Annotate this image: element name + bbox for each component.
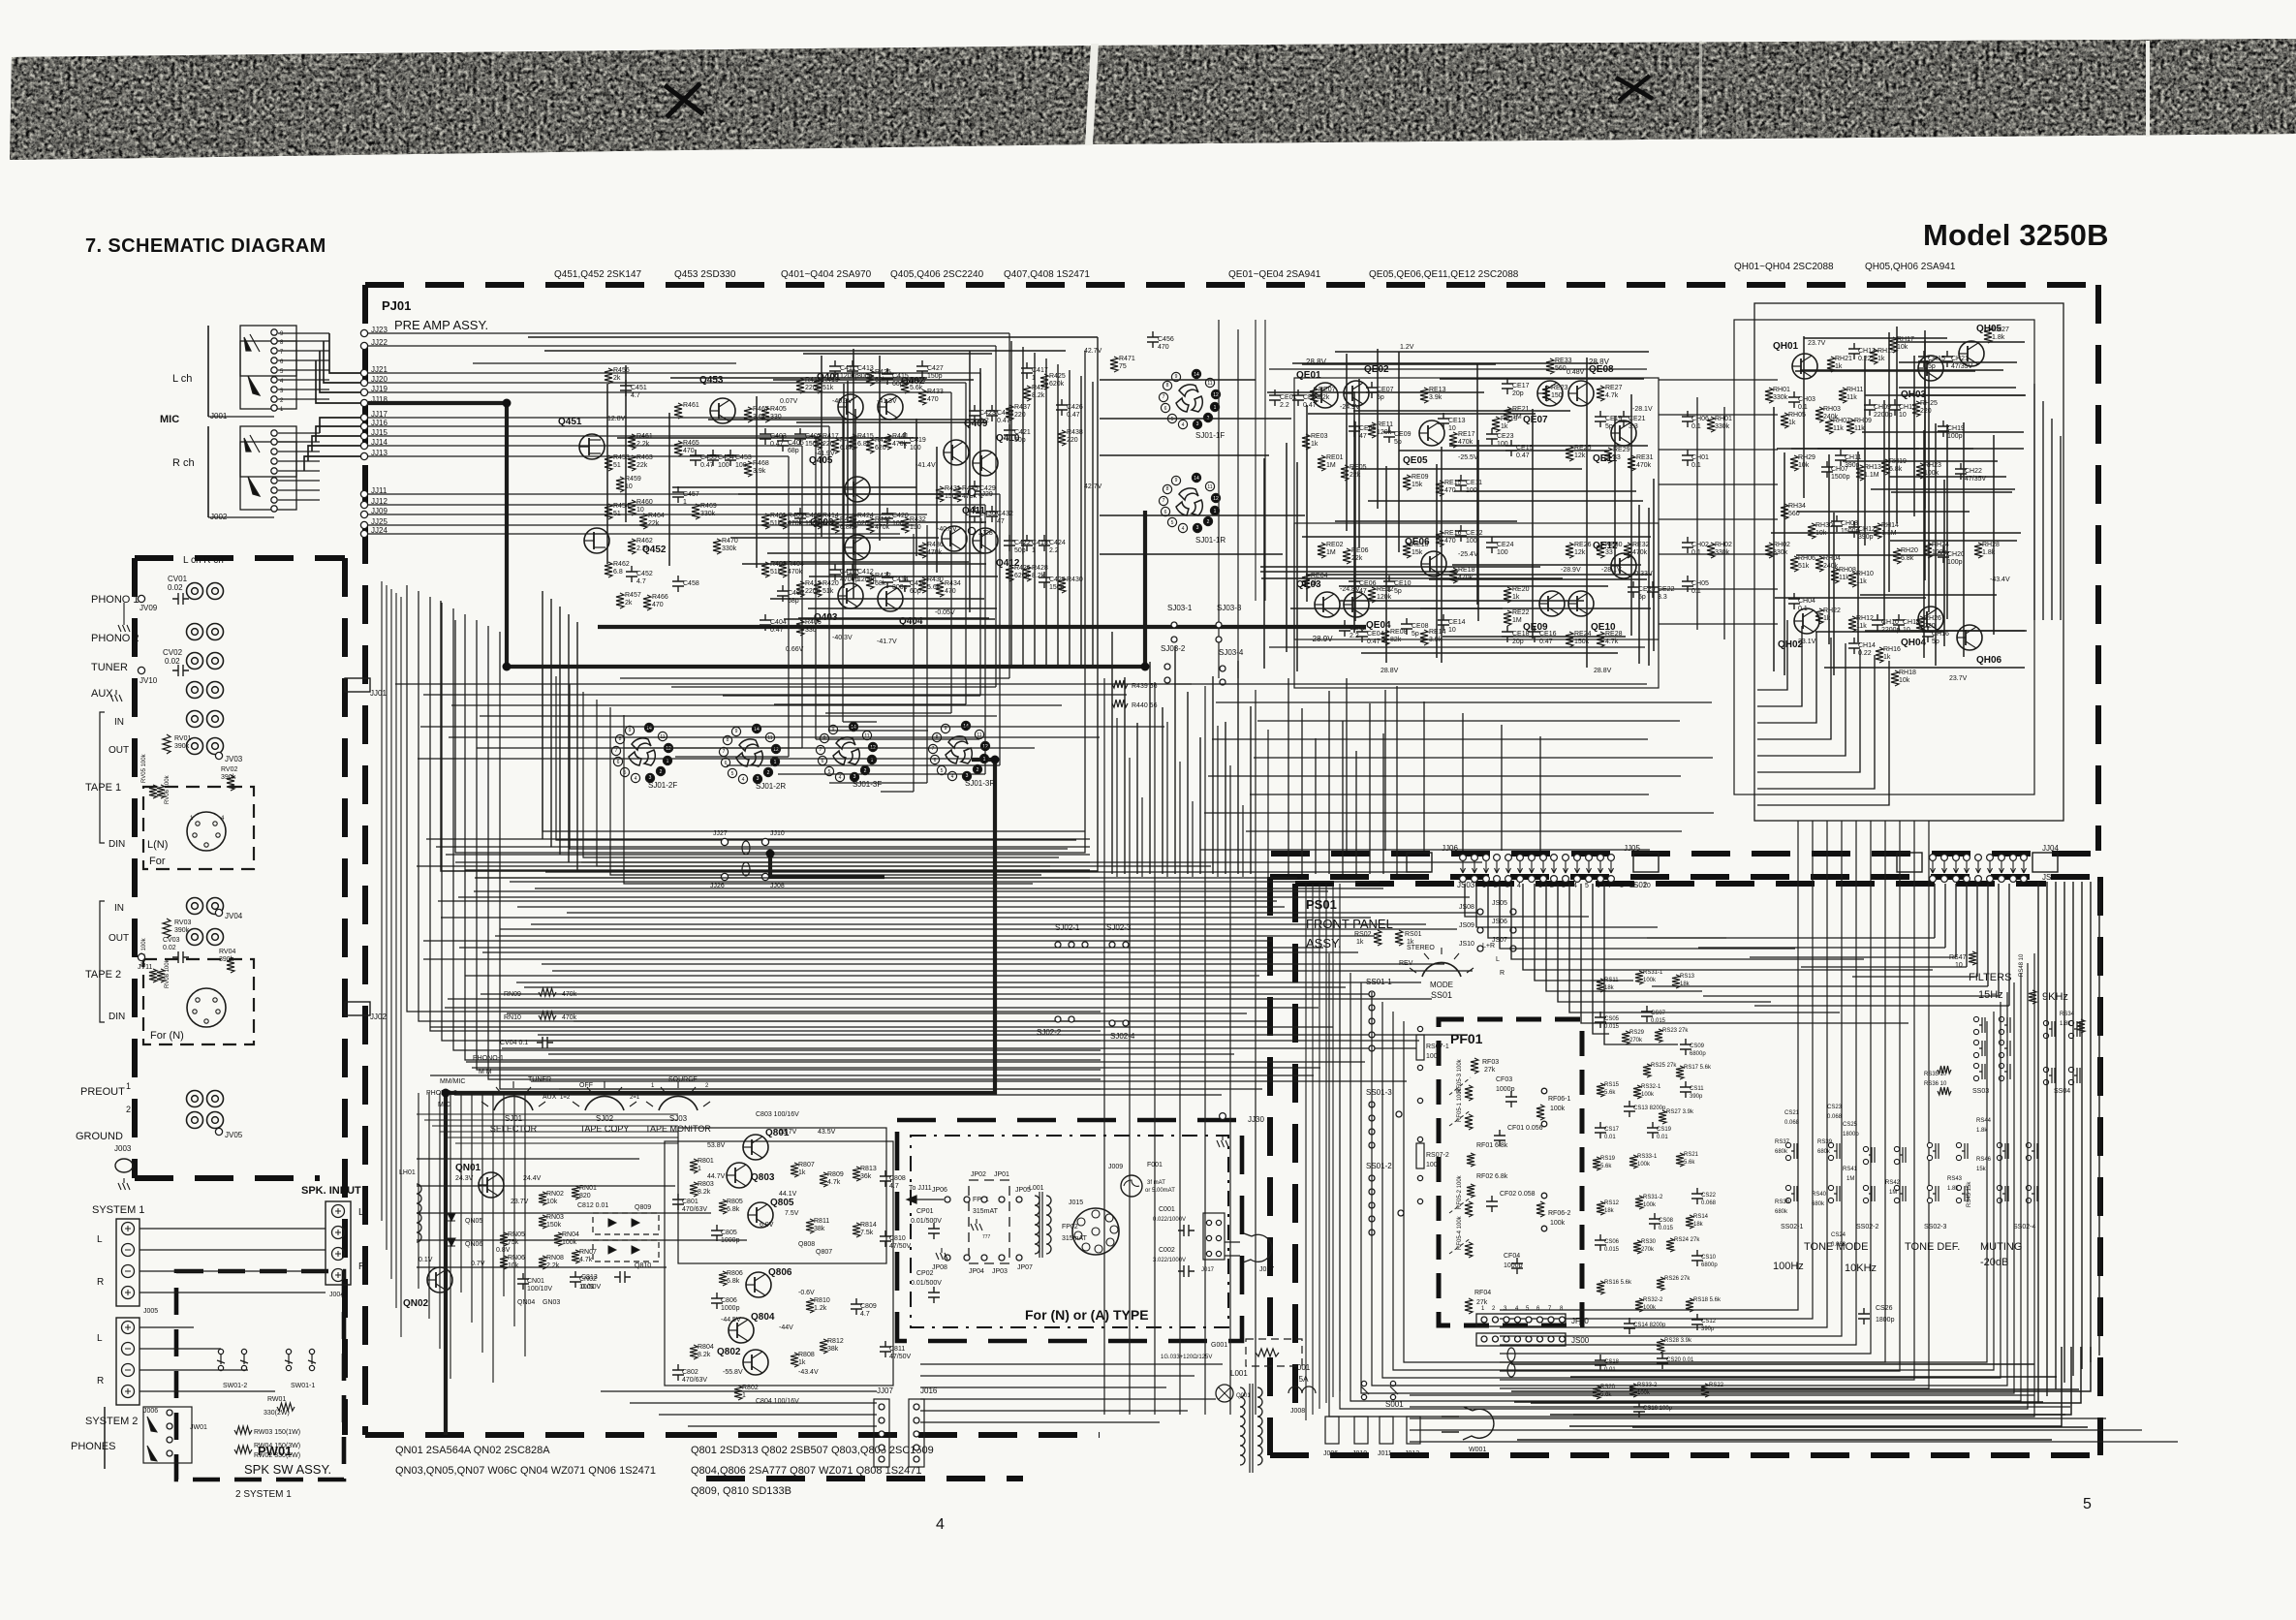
svg-text:C810: C810 [889,1235,906,1242]
svg-text:C453: C453 [735,454,752,461]
svg-text:JJ01: JJ01 [370,689,387,698]
svg-text:CE11: CE11 [1466,480,1482,486]
svg-text:JP06: JP06 [932,1187,947,1194]
svg-text:CH14: CH14 [1858,642,1876,649]
svg-text:REV: REV [1399,960,1413,967]
svg-text:RE12: RE12 [1377,586,1394,593]
svg-text:J011: J011 [1378,1450,1392,1457]
svg-text:Q801 2SD313 Q802 2SB50: Q801 2SD313 Q802 2SB507 Q803,Q805 2SC150… [691,1445,934,1456]
svg-text:SJ02-1: SJ02-1 [1055,923,1080,932]
svg-text:SJ02-2: SJ02-2 [1037,1028,1062,1037]
svg-text:JV04: JV04 [225,912,243,920]
svg-text:MIC: MIC [160,414,179,425]
heavy wire to front panel [770,854,884,877]
transistor QE01 [1313,383,1338,408]
svg-text:CE23: CE23 [1497,433,1514,440]
svg-text:1.2V: 1.2V [1400,344,1414,351]
svg-text:15k: 15k [1412,549,1423,556]
svg-text:9: 9 [629,728,632,733]
connector strip JS03/JS02 [1460,855,1615,883]
svg-text:1M: 1M [1326,462,1336,469]
svg-text:JJ10: JJ10 [770,830,785,837]
svg-text:10k: 10k [508,1262,519,1269]
wire bundle rotary row horizontals [395,683,1192,685]
svg-text:SJ03: SJ03 [669,1114,688,1123]
svg-text:47: 47 [997,518,1005,525]
svg-text:53.8V: 53.8V [707,1142,726,1149]
svg-text:1: 1 [698,1166,701,1172]
svg-text:0.068: 0.068 [1831,1242,1846,1248]
svg-text:680k: 680k [1812,1201,1825,1207]
svg-text:RE20: RE20 [1512,586,1530,593]
transistor Q404 [878,586,903,611]
svg-text:-40.8V: -40.8V [937,526,957,533]
svg-text:5: 5 [941,768,944,774]
svg-text:RE19: RE19 [1501,416,1518,422]
svg-text:330k: 330k [722,545,737,552]
wire bundle JS03 connector fan down [1465,884,1589,917]
svg-text:QH01~QH04 2SC2088: QH01~QH04 2SC2088 [1734,262,1834,272]
svg-text:RS32-1: RS32-1 [1641,1084,1661,1090]
svg-text:11k: 11k [1854,425,1865,432]
svg-text:RV03: RV03 [174,919,191,926]
transistor Q405 [845,477,870,502]
svg-text:6: 6 [1597,883,1600,889]
svg-text:SJ01-3R: SJ01-3R [965,779,995,788]
rotary switch SJ01-1R [1159,473,1220,532]
svg-text:MODE: MODE [1430,981,1453,989]
capacitor CV02 [172,665,189,676]
svg-text:RE32: RE32 [1632,542,1650,548]
svg-text:3.022/1000V: 3.022/1000V [1153,1258,1186,1263]
svg-text:RH23: RH23 [1924,462,1941,469]
svg-text:150: 150 [910,524,921,531]
svg-text:JJ27: JJ27 [713,830,728,837]
svg-text:DIN: DIN [109,839,125,850]
mic jack pins R [271,430,277,436]
svg-text:4.7: 4.7 [889,1183,899,1190]
svg-text:C802: C802 [682,1369,698,1376]
For (N) tape2 din border [143,959,254,1044]
svg-text:J017: J017 [1201,1267,1215,1273]
svg-text:C806: C806 [721,1297,737,1304]
svg-text:RH04: RH04 [1823,555,1841,562]
RCA jacks PHONO1 [187,583,203,600]
svg-text:5p: 5p [1928,363,1936,370]
speaker switch SW01-1 [288,1355,290,1364]
svg-text:PHONO 1: PHONO 1 [91,594,140,606]
transistor QH04 [1918,607,1943,632]
svg-text:C452: C452 [636,571,653,577]
svg-text:RH22: RH22 [1823,607,1841,614]
transistor QE03 [1315,592,1340,617]
svg-text:1k: 1k [1512,594,1520,601]
svg-text:RS15: RS15 [1604,1082,1620,1088]
svg-text:RS21: RS21 [1684,1152,1699,1158]
svg-text:390p: 390p [1701,1326,1715,1332]
coil LH01 [417,1184,421,1242]
wire bundle JJ04 connector fan down [1934,884,1936,938]
svg-text:1M: 1M [1326,549,1336,556]
svg-text:28.8V: 28.8V [1594,668,1612,674]
AC plug W001 lower [1442,1407,1494,1440]
svg-text:-25.4V: -25.4V [1458,551,1478,558]
svg-text:100k: 100k [1550,1220,1566,1227]
svg-text:11: 11 [864,733,869,739]
svg-text:10: 10 [636,507,644,514]
svg-text:JS01: JS01 [2042,873,2061,882]
jack JV05 [215,1128,222,1135]
terminal strip SPK INPUT [326,1201,351,1285]
svg-text:1M: 1M [1889,1190,1897,1196]
svg-text:7.5V: 7.5V [785,1210,799,1217]
transistor Q401 [838,394,863,420]
svg-text:Q001: Q001 [1236,1393,1251,1399]
svg-text:680k: 680k [1775,1209,1788,1215]
wires QE to QH crossing [1659,379,1778,381]
svg-text:RF06-2: RF06-2 [1548,1210,1570,1217]
svg-text:6: 6 [1164,406,1167,412]
svg-text:0.48V: 0.48V [1567,369,1585,376]
svg-text:RS40: RS40 [1812,1192,1827,1198]
tone control resistor matrix lower [1597,1201,1604,1215]
DIN connector TAPE2 [187,988,226,1027]
svg-text:2 SYSTEM 1: 2 SYSTEM 1 [235,1489,292,1500]
svg-text:R: R [97,1277,104,1288]
svg-text:R801: R801 [698,1158,714,1165]
svg-text:10k: 10k [1899,677,1910,684]
svg-text:6: 6 [617,760,620,765]
svg-text:23.7V: 23.7V [1808,340,1826,347]
svg-text:CV02: CV02 [163,648,183,657]
svg-text:470/63V: 470/63V [682,1206,707,1213]
svg-text:Q806: Q806 [768,1267,792,1278]
svg-text:3: 3 [1562,883,1566,889]
svg-text:1: 1 [1538,883,1542,889]
svg-text:2.2: 2.2 [1280,402,1289,409]
svg-text:5.6k: 5.6k [1600,1164,1612,1169]
svg-text:2: 2 [864,768,867,774]
input section border bottom [135,1175,320,1181]
svg-text:RH02: RH02 [1773,542,1790,548]
svg-text:SYSTEM 2: SYSTEM 2 [85,1416,138,1427]
svg-text:6.8k: 6.8k [1901,555,1914,562]
svg-text:R420: R420 [822,580,839,587]
scan band noise texture [10,39,2296,160]
svg-text:RS32-2: RS32-2 [1643,1297,1663,1303]
svg-text:0.01: 0.01 [1604,1135,1616,1140]
svg-text:5: 5 [828,769,831,775]
svg-text:0.1: 0.1 [1691,423,1701,430]
svg-text:R471: R471 [1119,356,1135,362]
svg-text:RH21: RH21 [1835,356,1852,362]
svg-text:R811: R811 [814,1218,829,1225]
svg-text:100k: 100k [1643,1305,1657,1311]
svg-text:10: 10 [1448,425,1456,432]
svg-text:15k: 15k [1976,1167,1987,1172]
svg-text:CH07: CH07 [1831,466,1848,473]
svg-text:CF02 0.058: CF02 0.058 [1500,1191,1536,1198]
svg-text:R440 56: R440 56 [1132,702,1158,709]
svg-text:330k: 330k [1773,549,1788,556]
svg-text:QH06: QH06 [1976,655,2002,666]
svg-text:47: 47 [1359,433,1367,440]
svg-text:C002: C002 [1159,1247,1175,1254]
svg-text:4: 4 [951,774,954,780]
svg-text:R803: R803 [698,1181,714,1188]
wires QH inner-right verticals [2033,384,2035,620]
capacitor CE01 area vertical wires [1255,320,1257,601]
svg-text:RS27 3.9k: RS27 3.9k [1666,1109,1694,1115]
svg-text:QE02: QE02 [1364,364,1389,375]
PJ01 assembly border left [362,285,368,1435]
wires mic to JJ jacks [278,332,329,334]
svg-text:2.2k: 2.2k [636,545,650,552]
svg-text:QE06: QE06 [1405,537,1430,547]
svg-text:7: 7 [1163,498,1165,504]
svg-text:6: 6 [725,761,728,766]
svg-text:C812 0.01: C812 0.01 [577,1202,608,1209]
svg-text:STEREO: STEREO [1407,945,1435,951]
svg-text:1k: 1k [1877,356,1885,362]
filter switches SS03 [1973,1016,1985,1034]
resistor RV02 [227,775,234,791]
transistor Q403 [838,583,863,608]
svg-text:0.7V: 0.7V [471,1261,485,1267]
svg-text:100k: 100k [1426,1053,1442,1060]
svg-text:0.47: 0.47 [700,462,714,469]
transistor QH05 [1959,341,1984,366]
svg-text:CE13: CE13 [1448,418,1466,424]
jack JJ30 [1220,1113,1226,1120]
svg-text:8.2k: 8.2k [698,1352,711,1358]
svg-text:330k: 330k [700,511,716,517]
svg-text:2=1: 2=1 [630,1095,640,1101]
svg-text:C804 100/16V: C804 100/16V [756,1398,799,1405]
svg-text:CV03: CV03 [163,937,180,944]
svg-text:1: 1 [667,759,669,764]
capacitor CV03 [172,951,189,963]
muting switch block [1997,1142,2008,1160]
connector box JJ04 right [2032,853,2058,872]
svg-text:220: 220 [1924,623,1936,630]
svg-text:24.3V: 24.3V [455,1175,474,1182]
svg-text:11: 11 [767,735,772,741]
svg-text:RS28 3.9k: RS28 3.9k [1664,1338,1692,1344]
svg-text:4: 4 [936,1516,945,1533]
svg-text:JS03: JS03 [1457,881,1475,889]
svg-text:RN02: RN02 [546,1191,564,1198]
svg-text:470k: 470k [1458,439,1474,446]
svg-text:RN10: RN10 [504,1014,521,1021]
svg-text:470k: 470k [562,1014,577,1021]
svg-text:JS10: JS10 [1459,941,1474,948]
svg-text:51: 51 [613,511,621,517]
svg-text:330k: 330k [1715,423,1730,430]
power section border bottom step [706,1476,1023,1481]
svg-text:470: 470 [945,588,956,595]
lamp J001 circle [1216,1385,1233,1402]
svg-text:PHONES: PHONES [71,1441,115,1452]
wires power amp lower connections [601,1390,877,1392]
transistor Q453 [710,398,735,423]
svg-text:3f mAT: 3f mAT [1147,1180,1165,1186]
transistor QE04 [1344,592,1369,617]
svg-text:RS29: RS29 [1629,1030,1645,1036]
svg-text:SS01-2: SS01-2 [1366,1162,1392,1170]
svg-text:LH01: LH01 [399,1169,416,1176]
transistor Q803 [727,1163,752,1188]
svg-text:JS09: JS09 [1459,922,1474,929]
svg-text:6800p: 6800p [1701,1262,1718,1268]
resistor RW01 [277,1403,295,1411]
svg-text:4.7k: 4.7k [1605,392,1619,399]
svg-text:6.8k: 6.8k [727,1206,740,1213]
svg-text:3.9k: 3.9k [753,468,766,475]
svg-text:11k: 11k [1839,575,1849,581]
PJ01 assembly border bottom [365,1432,678,1438]
power amp assembly border bottom [1271,851,2098,857]
svg-text:50p: 50p [1014,437,1026,444]
speaker switch SW01-2 [220,1355,222,1364]
svg-text:CH01: CH01 [1691,454,1709,461]
svg-text:390k: 390k [219,956,234,963]
svg-text:-0.6V: -0.6V [798,1290,815,1296]
PS01 outer border right [2097,877,2103,1455]
svg-text:JJ04: JJ04 [2042,844,2059,853]
svg-text:RS45 15k: RS45 15k [1967,1181,1972,1207]
svg-text:SJ02: SJ02 [596,1114,614,1123]
svg-text:15Hz: 15Hz [1978,989,2003,1001]
heavy wire rotary SJ01-3R to bus [446,760,995,1435]
svg-text:J003: J003 [114,1144,132,1153]
transistor QE11 [1611,421,1636,446]
svg-text:R: R [358,1262,365,1272]
scan band white line right [2146,41,2150,137]
svg-text:470k: 470k [1632,549,1648,556]
RCA jacks PREOUT 1 [187,1091,203,1107]
svg-text:TUNER: TUNER [528,1076,551,1083]
svg-text:CS26: CS26 [1876,1305,1893,1312]
svg-text:RN08: RN08 [546,1255,564,1262]
svg-text:RV02: RV02 [221,766,237,773]
svg-text:7: 7 [1608,883,1612,889]
RCA jacks AUX [187,682,203,699]
PS01 outer border left [1267,877,1273,1455]
svg-text:C805: C805 [721,1230,737,1236]
svg-text:CS25: CS25 [1843,1122,1858,1128]
jumper box JJ02 [345,1002,370,1015]
svg-text:1: 1 [683,499,687,506]
svg-text:RV04: RV04 [219,949,235,955]
For L(N) tape1 din border [143,787,254,869]
transformer L001 lower [1240,1387,1245,1465]
resistors RS07-1 RS07-2 [1416,1035,1424,1060]
svg-text:Q809: Q809 [635,1204,651,1211]
svg-text:RH20: RH20 [1901,547,1918,554]
svg-text:PRE AMP ASSY.: PRE AMP ASSY. [394,318,488,332]
svg-text:R433: R433 [927,389,944,395]
svg-text:AUX: AUX [543,1094,557,1101]
svg-text:PHONO-1: PHONO-1 [473,1055,504,1062]
svg-text:CE12: CE12 [1466,530,1483,537]
power amp resistor/capacitor cluster [690,1159,698,1173]
ground [118,620,130,632]
svg-text:J009: J009 [1108,1164,1123,1170]
svg-text:RS24 27k: RS24 27k [1674,1237,1700,1243]
power amp assembly border right [2095,285,2101,851]
svg-text:CS08: CS08 [1659,1218,1674,1224]
svg-text:Model 3250B: Model 3250B [1923,218,2109,252]
QH section frame [1754,303,2063,821]
PS01 nested wire rectangles [1329,953,2034,1417]
svg-text:-44.5V: -44.5V [721,1317,741,1324]
QE left column components [1682,411,1693,427]
svg-text:JP01: JP01 [994,1171,1009,1178]
resistor RN09 RN10 [539,988,556,996]
svg-text:R809: R809 [827,1171,844,1178]
rotary switch SJ01-1F [1159,369,1220,428]
svg-text:0.47: 0.47 [770,627,784,634]
svg-text:PHONO 2: PHONO 2 [91,633,140,644]
svg-text:RH01: RH01 [1773,387,1790,393]
wire staircase QH lower [1757,620,1787,690]
junction dots on heavy wires [503,399,512,408]
svg-text:JP02: JP02 [971,1171,986,1178]
svg-text:QH01: QH01 [1773,341,1799,352]
svg-text:620k: 620k [1049,381,1065,388]
svg-text:CH04: CH04 [1798,598,1815,605]
transistor QE02 [1344,381,1369,406]
svg-text:CH19: CH19 [1947,425,1965,432]
svg-text:560: 560 [1555,365,1567,372]
transistor Q804 [729,1318,754,1343]
svg-text:CS19: CS19 [1657,1127,1672,1133]
svg-text:220: 220 [1067,437,1078,444]
svg-text:12: 12 [1213,392,1219,398]
svg-text:SS01: SS01 [1431,990,1452,1000]
svg-text:RV07 100k: RV07 100k [141,937,147,967]
svg-text:51k: 51k [822,385,834,391]
svg-text:14: 14 [851,725,856,731]
svg-text:CS05: CS05 [1604,1016,1620,1022]
svg-text:QN04: QN04 [517,1299,535,1306]
ground [110,690,122,701]
svg-text:0.02: 0.02 [165,657,180,666]
svg-text:14: 14 [1194,372,1199,378]
svg-text:RS37: RS37 [1775,1139,1790,1145]
svg-text:6: 6 [1164,510,1167,515]
svg-text:JV11: JV11 [138,964,153,971]
svg-text:RH30: RH30 [1815,522,1833,529]
input section border right [342,558,348,1435]
svg-text:RH13: RH13 [1864,464,1881,471]
svg-text:150: 150 [1551,392,1563,399]
svg-text:GN03: GN03 [543,1299,560,1306]
tone mode switch block [1785,1142,1797,1160]
wire QE left column 2 [1723,407,1725,639]
PW01 speaker switch border [176,1271,344,1480]
wire bus central verticals right [1103,678,1105,1415]
svg-text:RE14: RE14 [1429,629,1446,636]
wires preamp to QE crossing [1100,379,1256,381]
PJ01 corner solid [365,285,392,324]
svg-text:QN02: QN02 [403,1298,429,1309]
svg-text:4.7k: 4.7k [579,1257,593,1263]
ground [1217,1136,1228,1147]
svg-text:C427: C427 [927,365,944,372]
svg-text:22k: 22k [1351,555,1363,562]
